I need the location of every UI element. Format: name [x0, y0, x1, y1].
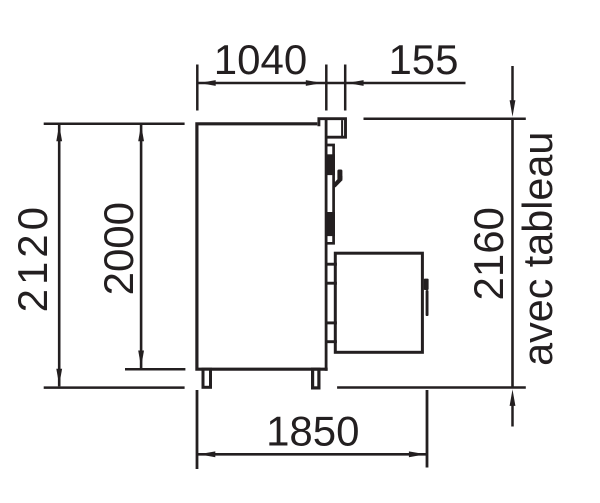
top extension line at front face (x=326)	[325, 65, 328, 111]
2160 top outside arrow stem	[511, 66, 514, 102]
boiler front face line	[325, 118, 328, 371]
door hinge upper	[327, 154, 335, 175]
top extension line at rear (x=197)	[196, 65, 199, 111]
arrow 2120 bottom	[56, 369, 62, 386]
left bottom extension line (ground, 2120)	[44, 386, 185, 389]
arrow 2000 bottom	[138, 351, 144, 368]
burner box	[335, 253, 422, 352]
arrow 2160 bottom (outside)	[510, 389, 516, 406]
burner handle bar	[426, 290, 429, 316]
top extension line at tableau front (x=345)	[344, 65, 347, 111]
arrow 1040 left	[199, 80, 216, 86]
burner mounting rung 1	[327, 263, 337, 266]
svg-text:1850: 1850	[266, 408, 359, 455]
arrowheads	[56, 80, 515, 457]
left mid extension line (body bottom, 2000)	[125, 368, 185, 371]
svg-text:2160: 2160	[465, 207, 512, 300]
left top extension line (boiler top)	[44, 123, 185, 126]
upper door edge	[326, 145, 334, 243]
arrow 2000 top	[138, 125, 144, 142]
top dimension line 1040/155	[197, 82, 465, 85]
svg-text:155: 155	[388, 36, 458, 83]
door latch hook	[333, 170, 343, 188]
arrow 2160 top (outside)	[510, 100, 516, 117]
right ground extension line	[337, 386, 526, 389]
left foot	[203, 369, 211, 387]
right top extension line (tableau top)	[364, 118, 526, 121]
bottom right extension line	[426, 390, 429, 468]
burner mounting rung 2	[327, 282, 337, 285]
dimension lines group	[44, 65, 526, 470]
boiler body outline	[197, 124, 328, 369]
svg-text:2120: 2120	[9, 203, 56, 312]
dimension line 2000	[140, 125, 143, 368]
bottom dimension line 1850	[197, 453, 427, 456]
svg-text:2000: 2000	[95, 202, 142, 295]
arrow 1850 right	[409, 451, 426, 457]
right foot	[313, 369, 319, 388]
arrow 155 left	[347, 80, 364, 86]
dimension line 2120	[58, 125, 61, 386]
burner mounting rung 4	[327, 340, 337, 343]
arrow 1850 left	[199, 451, 216, 457]
door hinge lower	[327, 212, 335, 236]
arrow 2120 top	[56, 125, 62, 142]
bottom left extension line	[196, 390, 199, 469]
burner mounting rung 3	[327, 321, 337, 324]
dimension line 2160	[511, 119, 514, 388]
control panel (tableau) box	[317, 117, 347, 138]
2160 bottom outside arrow stem	[511, 405, 514, 426]
burner handle nub	[424, 279, 429, 290]
arrow 1040 right	[306, 80, 323, 86]
svg-text:avec tableau: avec tableau	[515, 132, 561, 366]
svg-text:1040: 1040	[214, 36, 307, 83]
